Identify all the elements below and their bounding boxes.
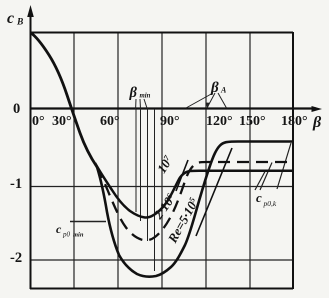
svg-text:c: c xyxy=(56,222,62,236)
svg-text:180°: 180° xyxy=(281,114,308,129)
svg-text:c: c xyxy=(7,10,14,27)
svg-text:120°: 120° xyxy=(206,114,233,129)
svg-text:B: B xyxy=(16,18,23,28)
svg-text:90°: 90° xyxy=(160,114,180,129)
svg-text:min: min xyxy=(140,93,151,100)
svg-text:60°: 60° xyxy=(100,114,120,129)
svg-text:150°: 150° xyxy=(239,114,266,129)
svg-text:c: c xyxy=(256,190,262,205)
svg-text:p0: p0 xyxy=(62,231,71,239)
svg-text:30°: 30° xyxy=(52,114,72,129)
svg-text:β: β xyxy=(129,85,138,101)
svg-text:0: 0 xyxy=(13,101,20,117)
svg-text:min: min xyxy=(73,232,84,239)
svg-text:A: A xyxy=(220,86,227,95)
svg-text:p0,k: p0,k xyxy=(263,199,277,208)
svg-text:β: β xyxy=(210,80,219,96)
svg-text:-1: -1 xyxy=(10,176,22,192)
svg-text:107: 107 xyxy=(154,152,176,175)
svg-text:β: β xyxy=(312,114,322,131)
svg-text:0°: 0° xyxy=(32,114,45,129)
svg-text:-2: -2 xyxy=(10,250,22,266)
